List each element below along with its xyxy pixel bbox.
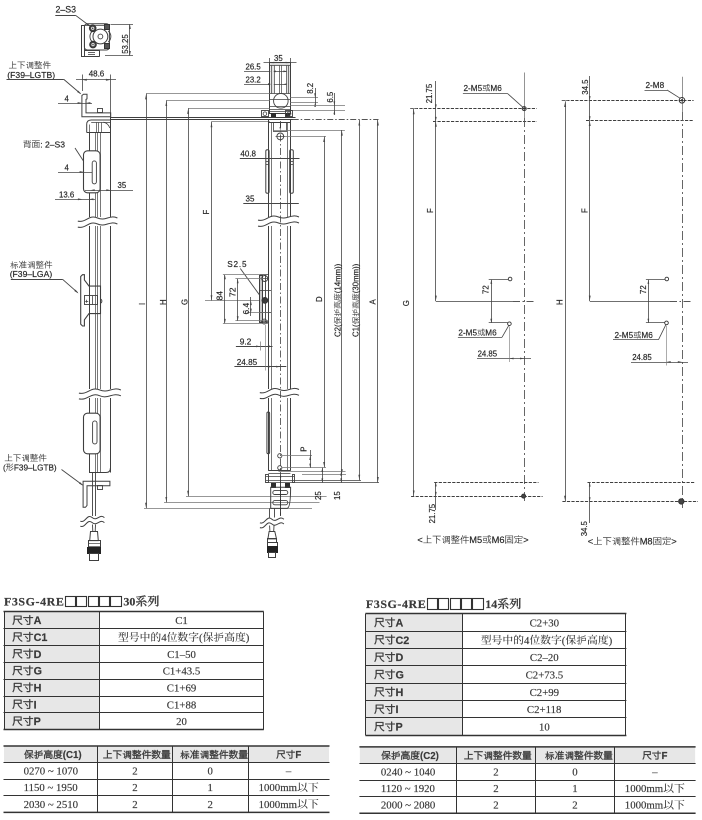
svg-text:2: 2: [132, 799, 137, 811]
svg-text:2-M8: 2-M8: [646, 81, 665, 90]
view1 bottom edge line (dash): [434, 482, 538, 484]
dimension 34.5 top (view2): [581, 76, 591, 120]
view1 top hole line (dash): [410, 108, 537, 110]
dimension line D (right): [284, 136, 326, 467]
upper L-bracket side view: [82, 94, 111, 117]
dimension line F (left): [202, 122, 270, 301]
svg-text:21.75: 21.75: [428, 503, 437, 523]
bottom bracket plate edge-on: [266, 472, 380, 483]
dimension line G (left): [181, 108, 327, 496]
view1 bottom hole line: [411, 496, 542, 498]
dimension 84: [215, 275, 269, 324]
detection zone arrow top: [280, 123, 281, 131]
dimension 15: [333, 471, 342, 500]
svg-text:C2+118: C2+118: [527, 704, 561, 716]
front cable break (wavy): [260, 518, 284, 528]
label 2-M5orM6 top: [463, 84, 523, 107]
svg-text:20: 20: [176, 716, 187, 728]
svg-text:9.2: 9.2: [240, 337, 252, 347]
dimension line A (right): [369, 120, 379, 483]
dimension line C1 (right): [352, 120, 361, 481]
svg-text:<: <: [588, 537, 593, 547]
svg-text:G: G: [34, 666, 42, 678]
svg-text:M6: M6: [490, 84, 502, 93]
svg-text:): ): [609, 635, 613, 647]
svg-text:25: 25: [314, 491, 323, 500]
top cap claws (black): [272, 114, 290, 117]
side view rail body upper: [90, 117, 111, 217]
svg-text:D: D: [315, 296, 324, 302]
svg-text:1000mm: 1000mm: [259, 782, 298, 794]
svg-text:1000mm: 1000mm: [259, 799, 298, 811]
svg-text:I: I: [138, 303, 147, 305]
svg-text:30: 30: [123, 595, 135, 609]
label 背面 2-S3: [23, 139, 88, 168]
label 2-M8: [645, 81, 681, 98]
dimension 4 (bracket plate): [58, 94, 92, 104]
svg-text:P: P: [396, 722, 403, 734]
view1 center vertical line (dash-dot): [524, 73, 526, 504]
dimension line I (left): [138, 94, 312, 509]
svg-text:C1+88: C1+88: [167, 699, 197, 711]
top beam circle: [276, 133, 286, 140]
svg-text:<: <: [417, 535, 422, 545]
svg-text:M6: M6: [485, 329, 497, 338]
front view break (wavy) lower: [260, 388, 299, 398]
svg-text:2: 2: [493, 800, 498, 812]
svg-text:2: 2: [493, 767, 498, 779]
svg-text:15: 15: [333, 491, 342, 500]
svg-text:C1+43.5: C1+43.5: [163, 666, 201, 678]
svg-text:2–S3: 2–S3: [56, 5, 77, 15]
svg-text:2-M5: 2-M5: [615, 331, 634, 340]
dimension 25: [314, 468, 323, 500]
svg-text:C1–50: C1–50: [167, 649, 196, 661]
svg-text:8.2: 8.2: [306, 83, 315, 94]
front view break (wavy) upper: [258, 216, 299, 226]
svg-text:0240 ~ 1040: 0240 ~ 1040: [381, 767, 435, 779]
svg-text:2: 2: [132, 766, 137, 778]
svg-text:2: 2: [493, 783, 498, 795]
label F39-LGTB lower bracket: [3, 454, 83, 486]
view1 bottom hole: [522, 494, 526, 498]
side view break (wavy) lower: [79, 389, 121, 399]
svg-text:H: H: [34, 683, 42, 695]
label 2-S3 (top cross-section): [55, 5, 91, 27]
view1 middle hole lower: [508, 322, 512, 326]
svg-text:2000 ~ 2080: 2000 ~ 2080: [381, 800, 435, 812]
svg-text:A: A: [369, 299, 378, 305]
top reference dash-dot line: [293, 119, 379, 121]
top bracket plate edge-on: [111, 111, 296, 120]
svg-text:35: 35: [274, 54, 283, 63]
view1 mid reference line: [436, 301, 536, 303]
svg-text:>: >: [671, 537, 676, 547]
svg-text:G: G: [396, 670, 404, 682]
side view break (wavy) upper: [78, 217, 118, 227]
detection zone arrow bottom: [280, 474, 281, 516]
dimension 8.2: [290, 83, 318, 107]
main body front view middle: [269, 226, 291, 389]
svg-text:): ): [246, 632, 250, 644]
side view connector: [88, 525, 101, 561]
dimension 6.5: [290, 91, 345, 115]
svg-text:P: P: [34, 716, 41, 728]
cross-section right claws: [105, 25, 110, 49]
view2 middle hole lower: [665, 321, 669, 325]
svg-text:0270 ~ 1070: 0270 ~ 1070: [24, 766, 78, 778]
caption view2: [588, 537, 677, 547]
svg-text:(F39–LGA): (F39–LGA): [10, 269, 53, 279]
svg-text:I: I: [34, 699, 37, 711]
svg-text:2: 2: [572, 800, 577, 812]
svg-text:40.8: 40.8: [240, 150, 256, 159]
top cap front view: [270, 63, 291, 114]
dimension 21.75 top (view1): [425, 81, 437, 121]
label 2-M5orM6 middle (view1): [458, 326, 509, 338]
svg-text:84: 84: [215, 291, 225, 301]
dimension line F (view1): [426, 121, 437, 301]
view1 top hole: [522, 107, 526, 111]
view2 center vertical line (dash-dot): [682, 77, 684, 508]
center axis dash-dot line: [280, 121, 282, 515]
svg-text:4: 4: [524, 635, 530, 647]
view2 top hole M8: [679, 98, 685, 104]
svg-text:10: 10: [539, 722, 550, 734]
svg-text:: 2–S3: : 2–S3: [40, 139, 65, 149]
standard bracket F39-LGA side view: [81, 275, 102, 326]
dimension 13.6: [55, 190, 95, 200]
dimension 9.2: [236, 337, 273, 351]
svg-text:C2+30: C2+30: [530, 618, 560, 630]
dimension 24.85: [234, 325, 286, 371]
beam circle P2: [278, 466, 326, 470]
dimension 48.6: [76, 69, 116, 117]
svg-text:53.25: 53.25: [121, 34, 130, 54]
svg-text:0: 0: [572, 767, 577, 779]
svg-text:(: (: [199, 632, 203, 644]
dimension 72 (view2): [639, 280, 665, 323]
label 2-M5orM6 (view2): [613, 325, 666, 340]
bottom end cap front view: [271, 487, 291, 508]
svg-text:F: F: [295, 750, 301, 761]
main body front view lower: [267, 398, 291, 474]
svg-text:14: 14: [485, 597, 497, 611]
svg-text:M6: M6: [641, 331, 653, 340]
svg-text:2-M5: 2-M5: [458, 329, 477, 338]
dimension line G (view1): [402, 109, 417, 497]
dimension 6.4: [241, 297, 268, 316]
dimension 23.2: [244, 75, 287, 85]
svg-text:4: 4: [65, 94, 70, 103]
standard bracket front view: [260, 275, 272, 325]
view2 mid reference line: [590, 301, 693, 303]
front cable: [270, 508, 275, 517]
title F3SG-4RE 14 series: [366, 597, 521, 611]
svg-text:F: F: [426, 208, 435, 213]
bottom cap claws (black): [272, 484, 290, 488]
svg-text:48.6: 48.6: [89, 69, 105, 78]
svg-text:D: D: [396, 652, 404, 664]
svg-text:72: 72: [228, 287, 238, 297]
main body front view upper: [268, 120, 290, 217]
svg-text:F39–LGTB): F39–LGTB): [14, 463, 57, 472]
svg-text:H: H: [159, 299, 168, 305]
view1 middle hole upper: [489, 277, 512, 281]
svg-text:F3SG-4RE: F3SG-4RE: [366, 597, 426, 611]
svg-text:F: F: [202, 210, 211, 215]
svg-text:35: 35: [118, 181, 127, 190]
cross-section screw S3 upper: [89, 25, 96, 32]
svg-text:24.85: 24.85: [237, 358, 258, 367]
view2 top hole line (dash): [562, 100, 694, 102]
side view rail top cap: [87, 120, 111, 133]
view2 bottom edge line (dash): [588, 482, 696, 484]
svg-text:C2: C2: [396, 635, 410, 647]
dimension 35 (side depth): [85, 181, 133, 191]
dimension 72: [228, 279, 269, 321]
dimension line C2 (right): [274, 130, 346, 475]
svg-text:C2+73.5: C2+73.5: [526, 670, 564, 682]
svg-text:1000mm: 1000mm: [625, 783, 664, 795]
title F3SG-4RE 30 series: [4, 595, 159, 609]
svg-text:1000mm: 1000mm: [625, 800, 664, 812]
svg-text:0: 0: [208, 766, 213, 778]
svg-text:G: G: [181, 299, 190, 305]
dimension 4 (module): [58, 163, 92, 173]
side view cable upper: [93, 473, 96, 517]
view2 bottom hole M8: [679, 499, 684, 504]
svg-text:M6: M6: [492, 535, 505, 545]
svg-text:C2+99: C2+99: [530, 687, 560, 699]
svg-text:1: 1: [572, 783, 577, 795]
svg-text:C2(: C2(: [333, 324, 342, 337]
svg-text:C2–20: C2–20: [530, 652, 559, 664]
cross-section screw S3 lower: [90, 41, 97, 48]
side view cable break (wavy): [80, 516, 104, 526]
svg-text:1150 ~ 1950: 1150 ~ 1950: [24, 782, 78, 794]
svg-text:(30mm)): (30mm)): [352, 263, 361, 293]
dimension P: [300, 446, 311, 467]
view2 bottom hole line: [562, 501, 698, 503]
table bracket quantities C1: [4, 746, 330, 812]
dimension line H (left): [159, 100, 320, 502]
label F39-LGA standard bracket: [10, 261, 79, 294]
svg-text:S2.5: S2.5: [227, 260, 247, 269]
dimension 26.5: [244, 63, 291, 73]
svg-text:6.5: 6.5: [326, 91, 335, 103]
lower L-bracket side view: [83, 481, 110, 507]
svg-text:C1(: C1(: [352, 324, 361, 337]
svg-text:23.2: 23.2: [246, 75, 261, 84]
svg-text:(14mm)): (14mm)): [333, 263, 342, 293]
svg-text:–: –: [651, 767, 658, 779]
svg-text:2: 2: [208, 799, 213, 811]
table dimensions 14 series: [365, 614, 626, 736]
dimension 21.75 bottom (view1): [428, 482, 437, 523]
svg-text:–: –: [285, 766, 292, 778]
svg-text:2-M5: 2-M5: [464, 84, 483, 93]
svg-text:35: 35: [246, 195, 255, 204]
back screw module lower (2-S3): [84, 413, 101, 454]
svg-text:A: A: [396, 618, 404, 630]
leader line to upper bracket: [7, 79, 82, 94]
svg-text:2: 2: [132, 782, 137, 794]
side view rail body middle: [90, 226, 111, 389]
dimension 24.85 (view1): [477, 327, 531, 363]
dimension 72 (view1): [482, 280, 508, 323]
svg-text:C1: C1: [175, 615, 188, 627]
side view rail body lower: [89, 398, 111, 473]
svg-text:4: 4: [65, 163, 70, 172]
label S2.5: [227, 260, 263, 300]
svg-text:H: H: [396, 687, 404, 699]
svg-text:H: H: [556, 299, 565, 305]
svg-text:A: A: [34, 615, 42, 627]
svg-text:F3SG-4RE: F3SG-4RE: [4, 595, 64, 609]
svg-text:6.4: 6.4: [241, 303, 251, 315]
dimension 34.5 bottom (view2): [580, 482, 591, 536]
svg-text:C1+69: C1+69: [167, 683, 197, 695]
svg-text:(C2): (C2): [420, 751, 439, 762]
svg-text:34.5: 34.5: [580, 520, 589, 536]
svg-text:M5: M5: [469, 535, 482, 545]
svg-text:(F39–LGTB): (F39–LGTB): [7, 70, 55, 80]
svg-text:G: G: [402, 300, 411, 306]
svg-text:34.5: 34.5: [581, 79, 590, 95]
dimension line F (view2): [581, 120, 591, 301]
table dimensions 30 series: [4, 612, 264, 730]
dimension 40.8 and clamp tabs: [240, 150, 300, 194]
dimension 24.85 (view2): [631, 326, 688, 366]
svg-text:4: 4: [161, 632, 167, 644]
svg-text:1120 ~ 1920: 1120 ~ 1920: [381, 783, 435, 795]
dimension 35 (top width): [264, 54, 297, 68]
caption view1: [417, 535, 528, 545]
svg-text:21.75: 21.75: [425, 83, 434, 103]
svg-text:D: D: [34, 649, 42, 661]
cross-section center lens circle: [90, 29, 111, 44]
svg-text:(: (: [562, 635, 566, 647]
svg-text:26.5: 26.5: [246, 63, 262, 72]
svg-text:24.85: 24.85: [632, 353, 652, 362]
view2 middle hole upper: [646, 277, 669, 281]
svg-text:72: 72: [639, 285, 648, 294]
beam circle P1: [278, 454, 312, 458]
dimension 35 (clamp): [243, 195, 298, 204]
label F39-LGTB upper bracket: [7, 61, 55, 80]
dimension 53.25: [105, 24, 133, 56]
svg-text:>: >: [523, 535, 528, 545]
svg-text:72: 72: [482, 285, 491, 294]
view2 plate edge line: [586, 120, 694, 122]
view1 plate edge line: [433, 121, 537, 123]
front connector: [267, 526, 277, 558]
svg-text:F: F: [662, 751, 668, 762]
back screw module upper (2-S3): [84, 151, 101, 193]
svg-text:F: F: [581, 208, 590, 213]
svg-text:(: (: [3, 463, 6, 472]
svg-text:(C1): (C1): [63, 750, 82, 761]
svg-text:P: P: [300, 446, 309, 451]
svg-text:2030 ~ 2510: 2030 ~ 2510: [24, 799, 78, 811]
svg-text:13.6: 13.6: [59, 190, 74, 199]
cross-section body (top view): [81, 24, 109, 57]
svg-text:I: I: [396, 704, 399, 716]
table bracket quantities C2: [359, 747, 695, 813]
svg-text:C1: C1: [34, 632, 48, 644]
svg-text:1: 1: [208, 782, 213, 794]
dimension line H (view2): [556, 101, 568, 502]
svg-text:M8: M8: [640, 537, 653, 547]
svg-text:24.85: 24.85: [478, 349, 498, 358]
